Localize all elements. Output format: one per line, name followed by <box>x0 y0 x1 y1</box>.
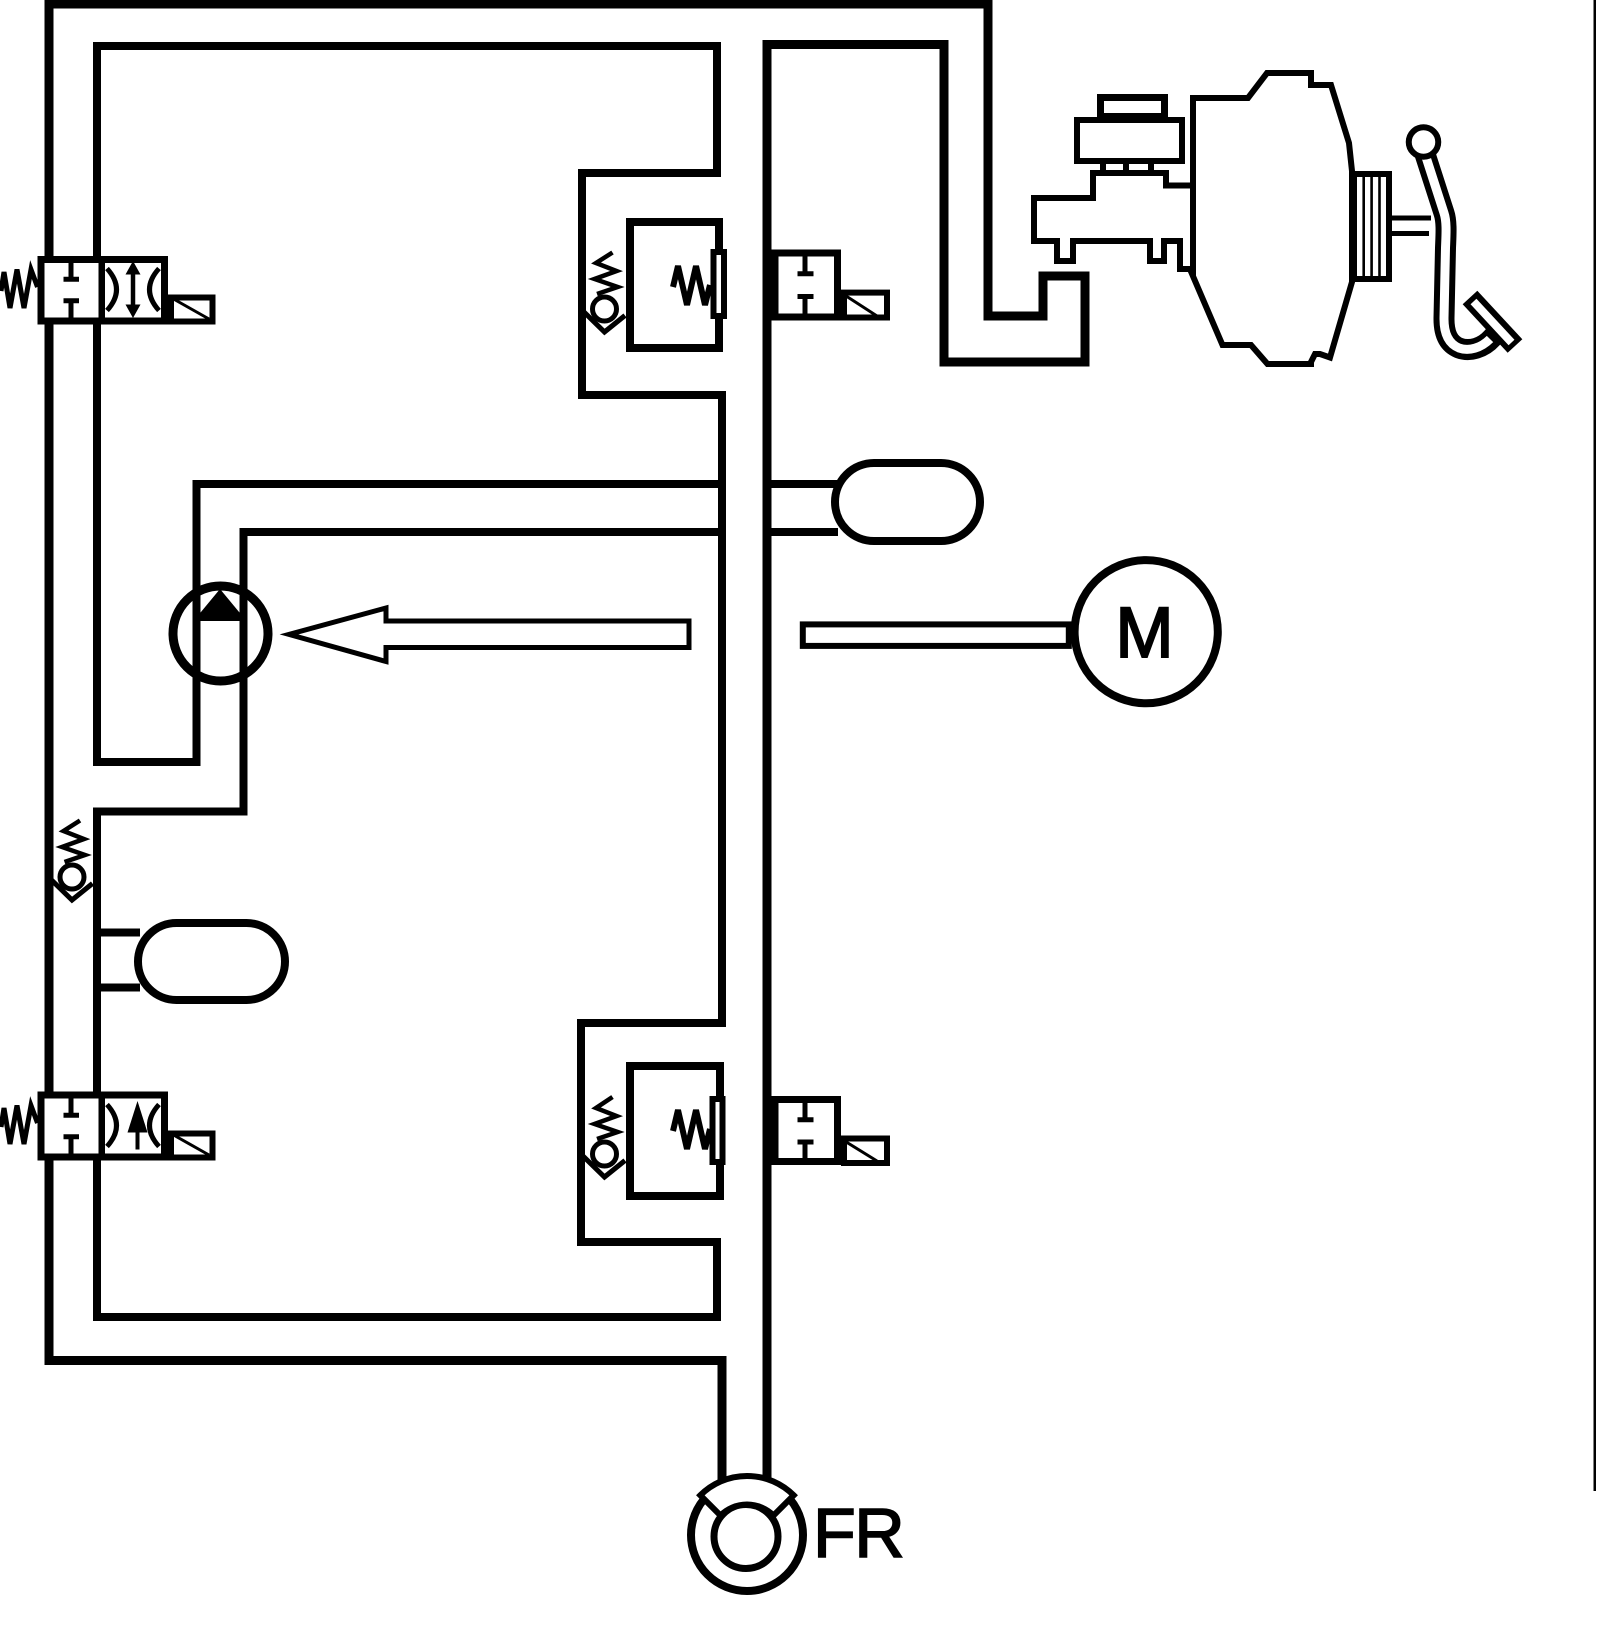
solenoid valve SV3 coil <box>844 293 887 318</box>
brake pedal knob <box>1409 127 1439 157</box>
wire stub accumulator lower top <box>95 929 140 937</box>
motor shaft <box>803 624 1069 646</box>
wire inner loop: valve line, relief brackets, lower return, pump right branch <box>97 46 726 1317</box>
relief valve RV1 piston <box>714 252 725 316</box>
solenoid valve SV2 divider <box>99 1093 106 1159</box>
booster seal cylinder <box>1354 174 1389 279</box>
wheel FR caliper band <box>700 1476 793 1516</box>
solenoid valve SV4 body <box>775 1100 838 1162</box>
brake booster shell <box>1193 73 1353 364</box>
check valve CV3 seat <box>50 879 93 900</box>
motor M circle <box>1075 560 1218 703</box>
svg-text:FR: FR <box>813 1494 903 1572</box>
wire outer top loop, right staircase and FR right pipe <box>49 4 1085 1480</box>
pump P1 circle <box>173 586 268 681</box>
solenoid valve SV2 right box throttle curves <box>107 1105 159 1147</box>
check valve CV2 seat <box>583 1156 626 1177</box>
brake pedal pad <box>1470 298 1515 347</box>
wire stub accumulator upper bottom <box>767 528 838 536</box>
solenoid valve SV2 check triangle <box>128 1101 148 1133</box>
solenoid valve SV3 blocked ports <box>798 253 814 317</box>
solenoid valve SV1 double arrow <box>131 272 136 307</box>
solenoid valve SV2 body <box>41 1095 165 1157</box>
wheel FR outer circle <box>691 1479 803 1591</box>
reservoir cap <box>1101 98 1165 117</box>
solenoid valve SV4 coil <box>844 1139 887 1164</box>
frame right border <box>1594 0 1597 1491</box>
solenoid valve SV4 blocked ports <box>798 1099 814 1161</box>
solenoid valve SV1 left box blocked ports <box>64 258 80 322</box>
master cylinder body <box>1034 173 1196 269</box>
relief valve RV1 spring <box>673 266 710 305</box>
check valve CV2 ball <box>593 1142 617 1166</box>
pump P1 triangle <box>194 589 247 621</box>
relief valve RV2 box <box>630 1066 720 1196</box>
wire stub accumulator upper top <box>767 480 838 488</box>
solenoid valve SV1 spring <box>1 270 38 309</box>
reservoir body <box>1077 120 1182 161</box>
solenoid valve SV1 right box throttle curves <box>107 269 159 311</box>
reservoir port bars <box>1103 161 1151 173</box>
check valve CV1 spring <box>595 253 618 295</box>
check valve CV3 ball <box>60 865 84 889</box>
brake pedal arm <box>1425 154 1501 350</box>
solenoid valve SV2 left box blocked ports <box>64 1094 80 1158</box>
solenoid valve SV3 body <box>775 253 838 317</box>
accumulator lower <box>138 923 285 1000</box>
wire left outer vertical, bottom run and FR left pipe <box>49 0 722 1480</box>
relief valve RV1 box <box>630 222 719 348</box>
relief valve RV2 spring <box>673 1110 710 1149</box>
check valve CV3 spring <box>62 821 85 863</box>
solenoid valve SV2 coil <box>171 1134 213 1158</box>
wire pump left branch <box>93 484 726 762</box>
check valve CV1 seat <box>583 311 626 332</box>
check valve CV2 spring <box>595 1097 618 1139</box>
solenoid valve SV1 body <box>41 260 165 322</box>
solenoid valve SV2 spring <box>1 1106 38 1145</box>
solenoid valve SV1 coil <box>171 298 213 322</box>
relief valve RV2 piston <box>713 1099 723 1162</box>
svg-text:M: M <box>1116 594 1174 673</box>
check valve CV1 ball <box>593 297 617 321</box>
wheel FR inner circle <box>714 1505 778 1569</box>
wire stub accumulator lower bottom <box>95 984 140 992</box>
flow arrow <box>289 608 689 662</box>
pushrod fork <box>1390 216 1431 221</box>
accumulator upper <box>835 463 980 541</box>
solenoid valve SV1 divider <box>99 257 106 323</box>
